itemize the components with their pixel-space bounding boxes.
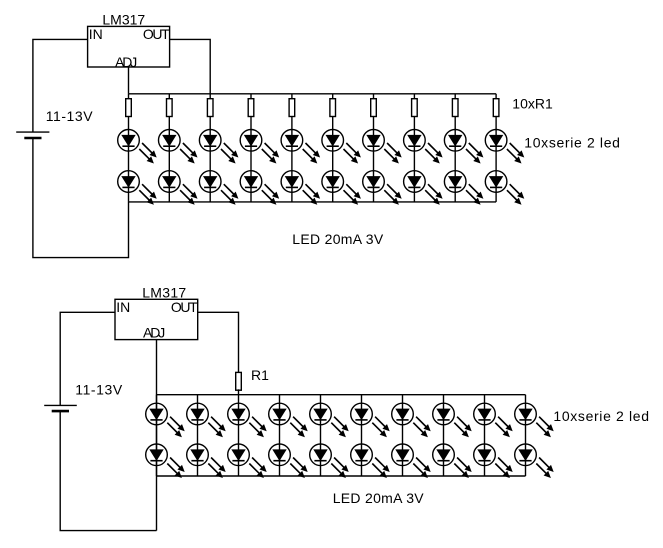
circuit1 branch 8 wire [413, 94, 415, 202]
svg-text:LED 20mA 3V: LED 20mA 3V [292, 231, 384, 247]
circuit1 branch 7 wire [373, 94, 375, 202]
battery B1 positive plate [16, 131, 49, 133]
circuit2 branch 3 LED top [228, 403, 267, 437]
circuit1 branch 4 LED bottom [240, 171, 279, 205]
circuit1 branch 1 LED bottom [118, 171, 157, 205]
wire U1 OUT down to top bus [170, 39, 211, 93]
circuit2 branch 5 wire [320, 395, 322, 476]
wire U2 OUT down to resistor R1 [198, 312, 239, 373]
circuit2 branch 9 LED bottom [474, 444, 513, 478]
svg-text:LED 20mA 3V: LED 20mA 3V [333, 490, 425, 506]
circuit2 branch 8 LED bottom [433, 444, 472, 478]
circuit1 branch 10 LED top [485, 130, 524, 164]
circuit1 branch 4 LED top [240, 130, 279, 164]
regulator U1 LM317 body [88, 26, 170, 67]
battery B1 negative plate [24, 137, 41, 140]
svg-text:IN: IN [89, 26, 103, 42]
circuit1 branch 9 resistor (one of 10xR1) [452, 99, 458, 117]
svg-text:IN: IN [116, 299, 130, 315]
circuit2 branch 9 LED top [474, 403, 513, 437]
circuit1 branch 3 LED top [199, 130, 238, 164]
top bus (anode rail) circuit 1 [129, 93, 497, 95]
circuit1 branch 4 resistor (one of 10xR1) [248, 99, 254, 117]
svg-text:10xserie 2 led: 10xserie 2 led [524, 135, 620, 151]
circuit1 branch 3 resistor (one of 10xR1) [207, 99, 213, 117]
circuit1 branch 8 resistor (one of 10xR1) [412, 99, 418, 117]
svg-text:10xR1: 10xR1 [512, 95, 553, 111]
circuit2 branch 6 LED bottom [351, 444, 390, 478]
circuit1 branch 8 LED top [404, 130, 443, 164]
circuit2 branch 1 LED bottom [146, 444, 185, 478]
circuit1 branch 7 LED bottom [363, 171, 402, 205]
bottom bus (cathode rail) circuit 1 [129, 201, 497, 203]
svg-text:ADJ: ADJ [115, 54, 136, 70]
battery B2 positive plate [44, 404, 77, 406]
top bus (anode rail) circuit 2 [157, 394, 526, 396]
circuit2 branch 10 LED top [515, 403, 554, 437]
circuit2 branch 5 LED bottom [310, 444, 349, 478]
battery B2 negative plate [52, 410, 69, 413]
circuit2 branch 4 LED bottom [269, 444, 308, 478]
circuit2 branch 1 wire [156, 395, 158, 476]
circuit2 branch 2 wire [197, 395, 199, 476]
circuit1 branch 1 wire [128, 94, 130, 202]
circuit2 branch 9 wire [484, 395, 486, 476]
circuit1 branch 2 LED top [159, 130, 198, 164]
wire U2 ADJ down to bottom rail [156, 340, 158, 531]
circuit2 branch 7 LED bottom [392, 444, 431, 478]
wire U2 IN to battery top [60, 312, 115, 405]
circuit1 branch 9 LED bottom [444, 171, 483, 205]
circuit1 branch 10 wire [495, 94, 497, 202]
wire U1 ADJ down to top bus [128, 67, 130, 94]
circuit2 branch 4 wire [279, 395, 281, 476]
circuit1 branch 8 LED bottom [404, 171, 443, 205]
circuit1 branch 7 resistor (one of 10xR1) [371, 99, 377, 117]
circuit2 branch 10 LED bottom [515, 444, 554, 478]
circuit1 branch 5 LED top [281, 130, 320, 164]
circuit1 branch 6 LED bottom [322, 171, 361, 205]
circuit1 branch 10 resistor (one of 10xR1) [493, 99, 499, 117]
circuit2 branch 5 LED top [310, 403, 349, 437]
circuit2 branch 4 LED top [269, 403, 308, 437]
circuit1 branch 6 resistor (one of 10xR1) [330, 99, 336, 117]
circuit2 branch 10 wire [525, 395, 527, 476]
circuit2 branch 3 wire [238, 395, 240, 476]
wire battery negative to bottom rail [60, 411, 156, 530]
wire battery negative to bottom rail [33, 138, 129, 258]
svg-text:ADJ: ADJ [143, 324, 164, 340]
circuit2 branch 8 LED top [433, 403, 472, 437]
circuit2 branch 8 wire [443, 395, 445, 476]
circuit1 branch 1 LED top [118, 130, 157, 164]
svg-text:OUT: OUT [171, 299, 198, 315]
svg-text:11-13V: 11-13V [46, 108, 94, 124]
circuit2 branch 1 LED top [146, 403, 185, 437]
wire U1 IN to battery top [33, 39, 88, 132]
circuit1 branch 6 wire [332, 94, 334, 202]
svg-text:11-13V: 11-13V [75, 382, 123, 398]
circuit1 branch 1 resistor (one of 10xR1) [126, 99, 132, 117]
circuit1 branch 2 LED bottom [159, 171, 198, 205]
resistor R1 [236, 372, 242, 390]
svg-text:LM317: LM317 [102, 12, 145, 28]
circuit1 branch 7 LED top [363, 130, 402, 164]
circuit1 branch 10 LED bottom [485, 171, 524, 205]
wire R1 to top bus [238, 389, 240, 394]
circuit2 branch 7 LED top [392, 403, 431, 437]
circuit1 branch 3 wire [209, 94, 211, 202]
circuit1 branch 6 LED top [322, 130, 361, 164]
circuit2 branch 3 LED bottom [228, 444, 267, 478]
circuit2 branch 6 LED top [351, 403, 390, 437]
circuit1 branch 9 wire [454, 94, 456, 202]
circuit2 branch 7 wire [402, 395, 404, 476]
circuit1 branch 3 LED bottom [199, 171, 238, 205]
circuit1 branch 9 LED top [444, 130, 483, 164]
circuit2 branch 2 LED top [187, 403, 226, 437]
regulator U2 LM317 body [115, 299, 198, 339]
circuit1 branch 5 wire [291, 94, 293, 202]
circuit1 branch 5 resistor (one of 10xR1) [289, 99, 295, 117]
svg-text:R1: R1 [251, 367, 269, 383]
circuit1 branch 2 resistor (one of 10xR1) [167, 99, 173, 117]
circuit2 branch 2 LED bottom [187, 444, 226, 478]
bottom bus (cathode rail) circuit 2 [157, 475, 526, 477]
svg-text:10xserie 2 led: 10xserie 2 led [553, 408, 649, 424]
circuit1 branch 4 wire [250, 94, 252, 202]
circuit2 branch 6 wire [361, 395, 363, 476]
svg-text:OUT: OUT [143, 26, 170, 42]
circuit1 branch 2 wire [168, 94, 170, 202]
circuit1 branch 5 LED bottom [281, 171, 320, 205]
